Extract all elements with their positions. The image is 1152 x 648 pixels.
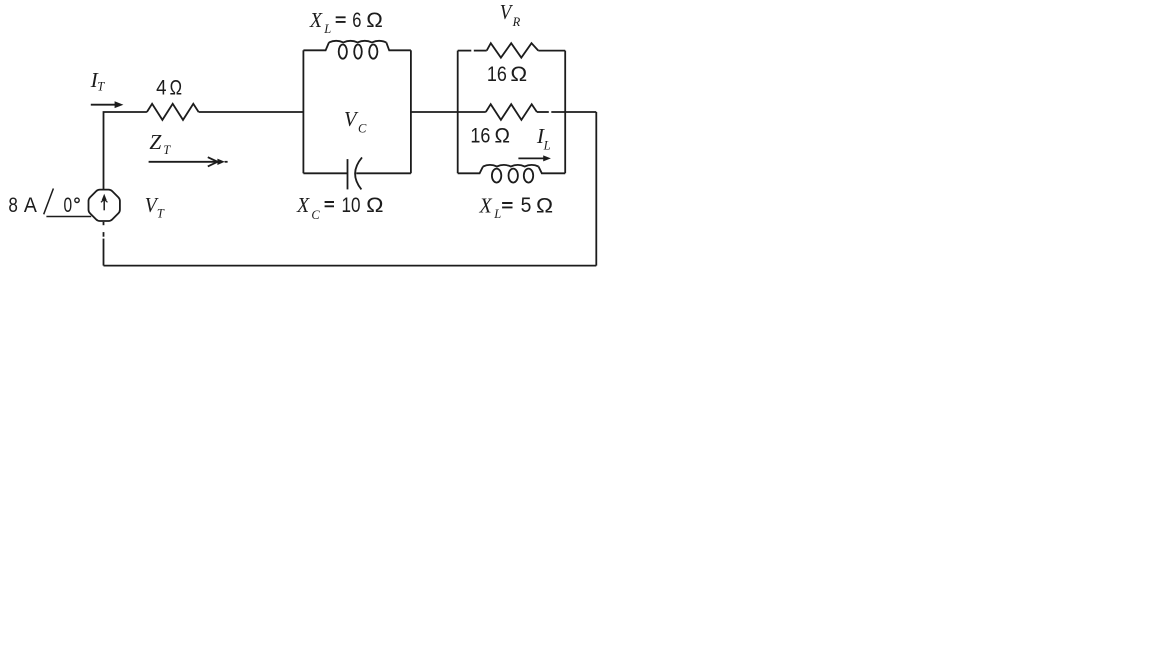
wire box1 top-right lead <box>386 42 411 50</box>
svg-text:L: L <box>323 22 331 36</box>
svg-text:16: 16 <box>470 124 490 147</box>
svg-text:0: 0 <box>64 194 73 217</box>
wire source bottom lead stub <box>103 222 105 225</box>
inductor L2 loop 1 <box>492 169 501 183</box>
arrow Z_T chevron <box>208 157 218 166</box>
arrow Z_T solid head <box>217 159 224 165</box>
inductor L2 loop 3 <box>524 169 533 183</box>
inductor L1 loop 3 <box>369 45 377 59</box>
svg-text:5: 5 <box>521 194 532 217</box>
angle slash of 8A source label <box>44 189 54 215</box>
svg-text:Ω: Ω <box>510 63 527 86</box>
svg-text:X: X <box>479 194 493 218</box>
wire box1 top-left lead <box>303 42 329 50</box>
svg-text:L: L <box>493 207 501 221</box>
node box2 right edge <box>564 51 566 174</box>
resistor R 4-ohm zigzag <box>147 104 199 120</box>
arrow I_L shaft <box>518 157 545 159</box>
wire box2 middle-right lead <box>537 111 549 113</box>
wire box2 top-left lead <box>458 50 472 52</box>
wire capacitor to box1 bottom-right <box>356 172 411 174</box>
current source arrow shaft <box>103 197 105 210</box>
svg-text:Ω: Ω <box>170 77 182 100</box>
wire right outer drop <box>595 112 597 266</box>
wire bottom return rail <box>104 265 597 267</box>
svg-text:Z: Z <box>149 130 162 154</box>
arrow I_T head <box>115 101 124 108</box>
svg-text:T: T <box>157 207 165 221</box>
inductor L2 loop 2 <box>509 169 518 183</box>
current source arrow barbs <box>101 199 108 202</box>
current source I1 circle (octagon) <box>89 190 120 221</box>
svg-text:10: 10 <box>342 194 361 217</box>
svg-text:C: C <box>311 208 320 222</box>
wire box2 top-left dash <box>474 50 487 52</box>
wire middle-right segment to outer corner <box>551 111 596 113</box>
arrow I_T shaft <box>91 104 116 106</box>
degree circle of 0 deg <box>75 198 79 202</box>
wire box2 bottom-right lead <box>539 167 566 174</box>
wire source bottom lead to bottom rail <box>103 239 105 266</box>
svg-text:Ω: Ω <box>536 194 553 217</box>
node box2 left edge <box>457 51 459 174</box>
svg-text:8: 8 <box>8 194 18 217</box>
svg-text:X: X <box>309 8 323 32</box>
current source arrow head <box>102 194 107 201</box>
node box1 left edge <box>302 50 304 173</box>
equals sign of X_L=5 <box>502 203 512 207</box>
arrow I_L head <box>543 155 551 161</box>
wire between box1 and box2 <box>411 111 458 113</box>
capacitor C left plate <box>347 159 349 189</box>
angle underline of 8A source label <box>46 216 91 218</box>
svg-text:16: 16 <box>487 63 507 86</box>
svg-text:T: T <box>97 80 105 94</box>
node box1 right edge <box>410 50 412 173</box>
equals sign of X_L=6 <box>336 17 346 22</box>
resistor R2 16-ohm middle zigzag <box>486 104 537 120</box>
resistor R1 16-ohm top zigzag <box>487 43 539 58</box>
wire box2 bottom-left lead <box>458 167 483 174</box>
svg-text:R: R <box>512 15 521 29</box>
inductor L1 loop 2 <box>354 45 362 59</box>
equals sign of X_C=10 <box>325 202 334 206</box>
wire box2 top-right lead <box>538 50 565 52</box>
wire source bottom lead dash <box>103 232 105 237</box>
svg-text:C: C <box>358 122 367 136</box>
capacitor C right curved plate <box>355 157 362 189</box>
wire top rail to first parallel box <box>199 111 304 113</box>
wire box2 middle-left lead <box>458 111 486 113</box>
svg-text:A: A <box>24 194 37 217</box>
arrow Z_T tail dash <box>225 161 228 163</box>
svg-text:Ω: Ω <box>495 124 511 147</box>
inductor L1 loop 1 <box>339 45 347 59</box>
inductor L1 X_L=6 top line <box>329 41 386 43</box>
svg-text:Ω: Ω <box>366 9 383 32</box>
svg-text:Ω: Ω <box>366 194 383 217</box>
svg-text:4: 4 <box>156 77 167 100</box>
inductor L2 X_L=5 top line <box>483 165 539 167</box>
svg-text:L: L <box>543 138 551 152</box>
wire left riser from source to top rail <box>104 112 147 189</box>
svg-text:T: T <box>163 143 171 157</box>
svg-text:X: X <box>296 193 310 217</box>
arrow Z_T shaft <box>149 161 217 163</box>
svg-text:6: 6 <box>352 9 361 32</box>
wire box1 bottom-left lead to capacitor <box>303 172 347 174</box>
